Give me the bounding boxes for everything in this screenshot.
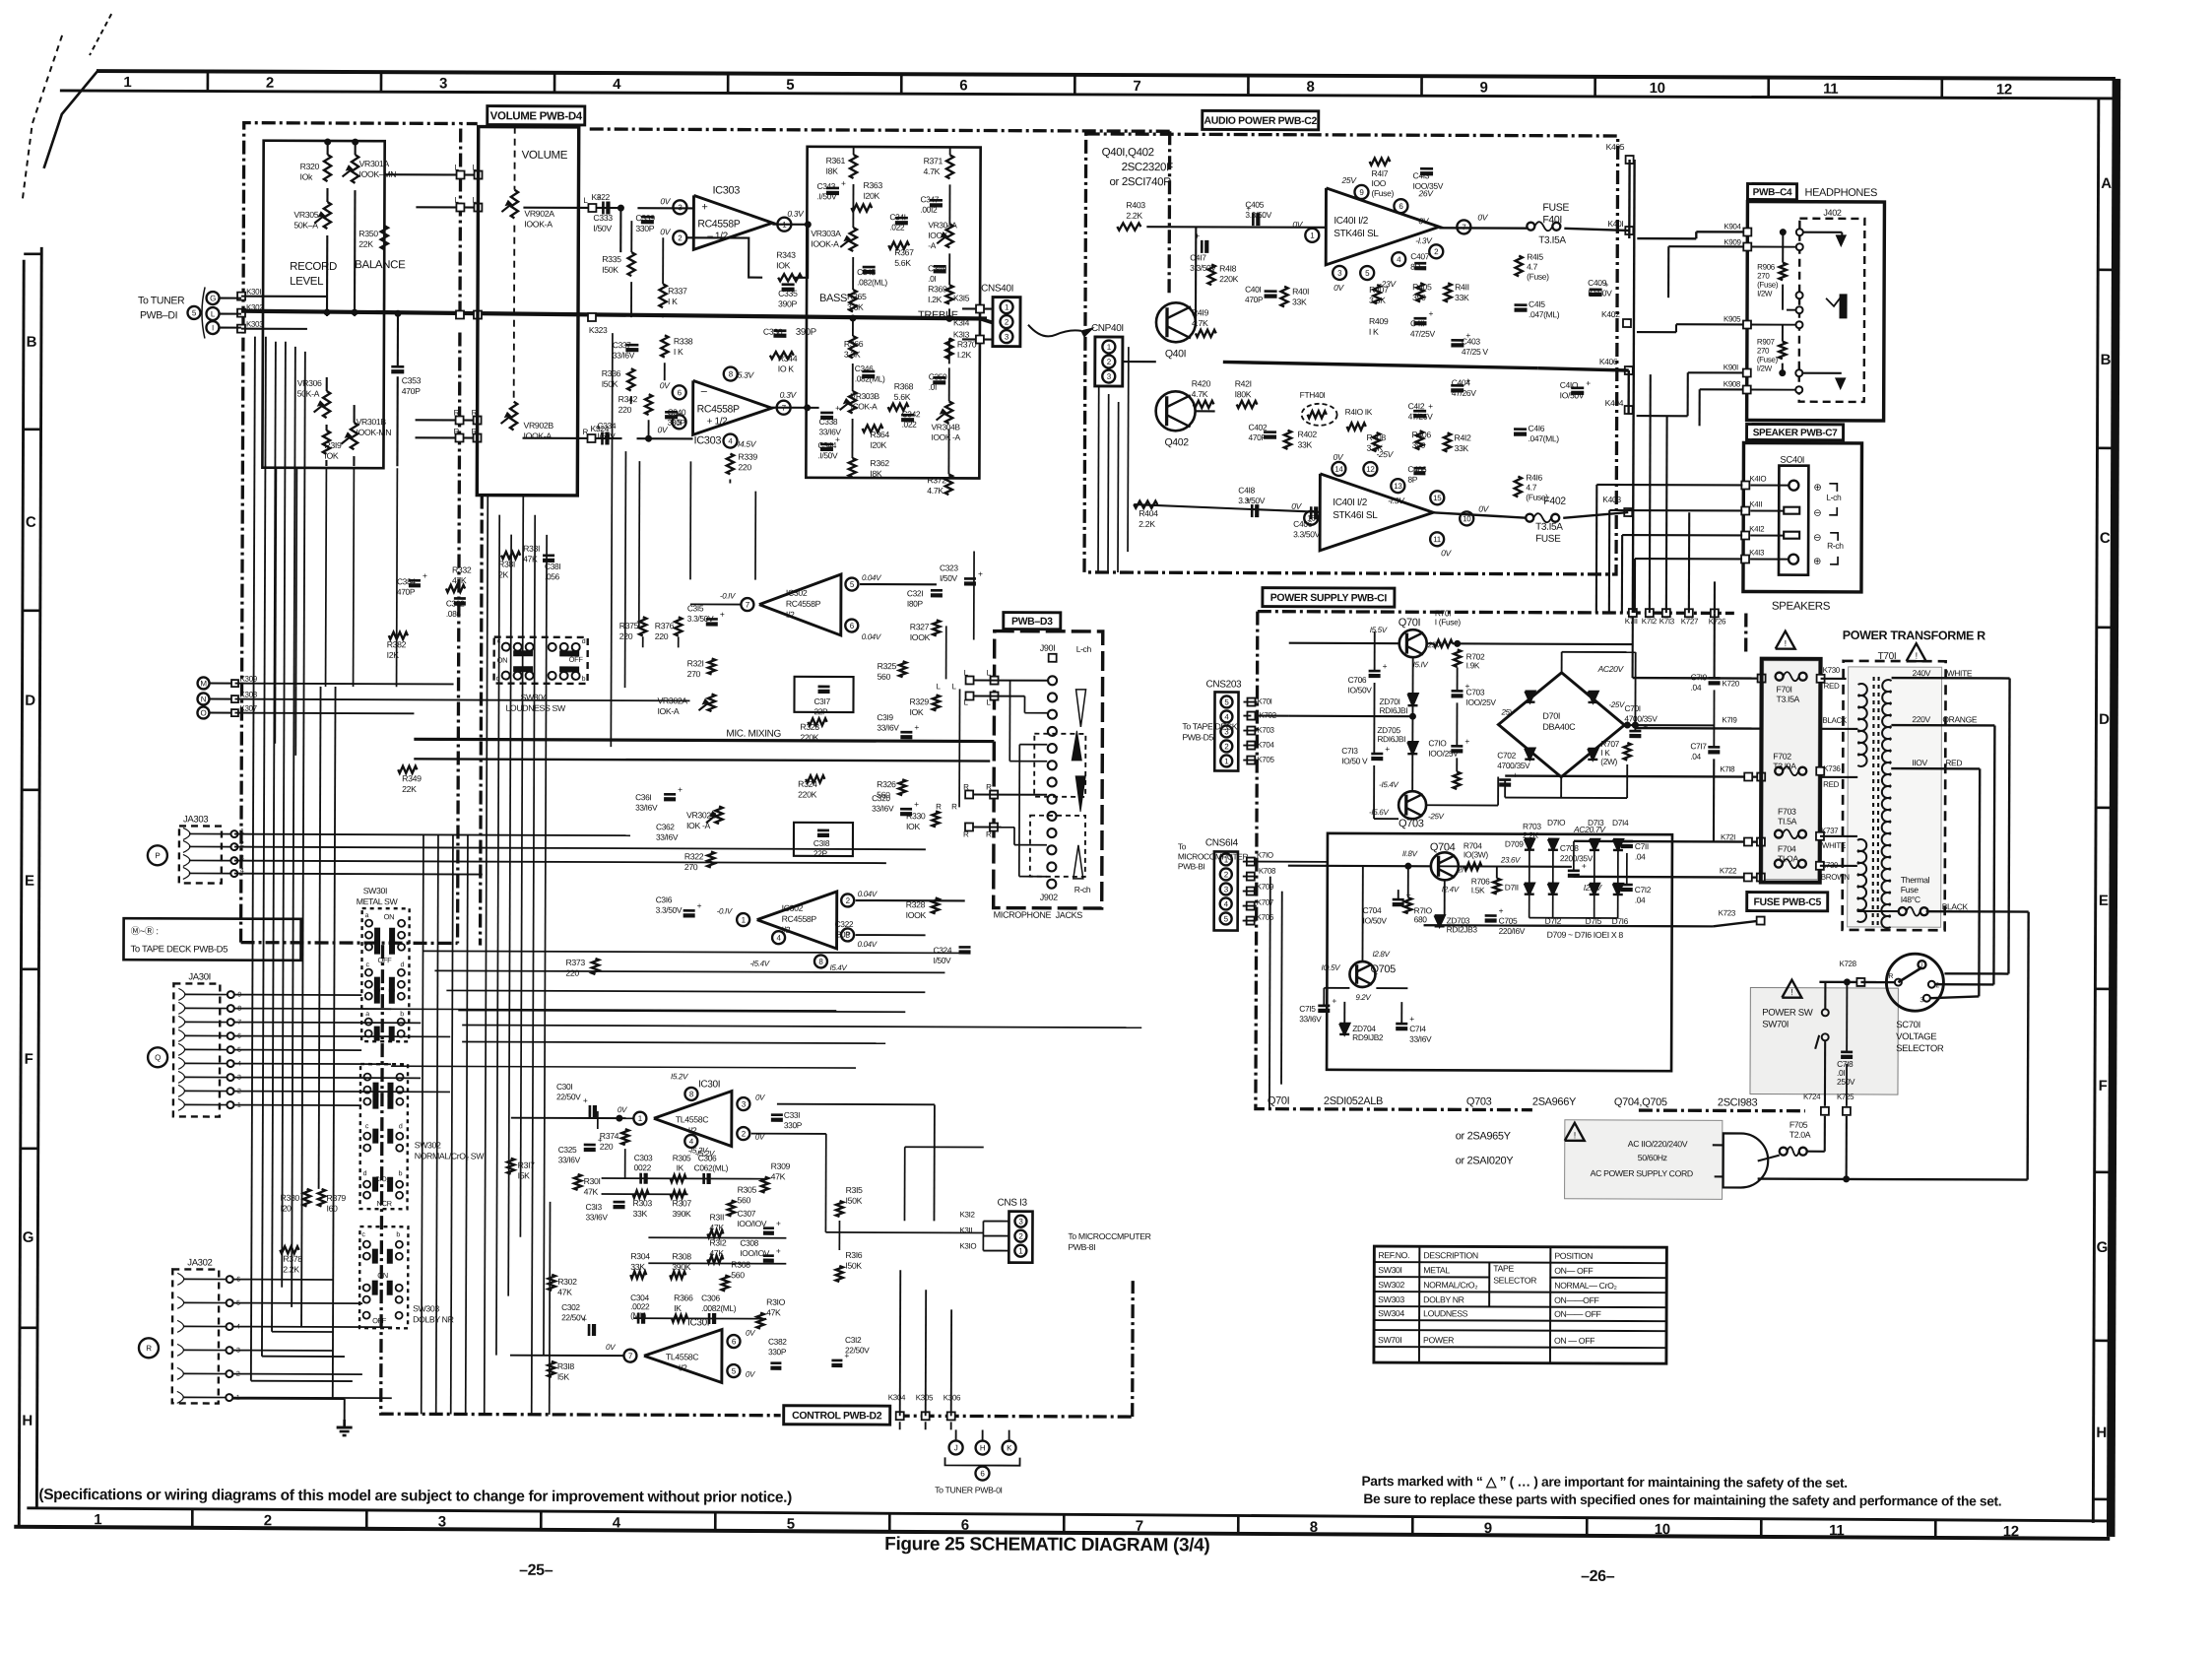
svg-text:6: 6 (732, 1337, 737, 1346)
svg-text:C703: C703 (1466, 687, 1485, 696)
label AUDIO POWER PWB-C2 (1203, 110, 1319, 129)
svg-text:8: 8 (729, 369, 734, 378)
svg-text:K406: K406 (1599, 357, 1618, 366)
svg-text:POSITION: POSITION (1554, 1251, 1593, 1261)
svg-text:L-ch: L-ch (1826, 493, 1842, 502)
capacitor C343 (826, 187, 839, 190)
svg-text:R361: R361 (826, 156, 846, 166)
svg-text:C325: C325 (558, 1145, 577, 1155)
svg-text:3: 3 (742, 1099, 747, 1108)
wires headphone jack (1796, 229, 1803, 235)
op-amp IC401 lower (1320, 474, 1433, 551)
svg-text:R4I2: R4I2 (1455, 432, 1472, 442)
svg-text:+: + (596, 192, 601, 202)
svg-text:-I5.4V: -I5.4V (1379, 780, 1399, 789)
svg-text:K725: K725 (1837, 1093, 1854, 1101)
svg-text:I/2W: I/2W (1757, 365, 1773, 373)
svg-text:F703: F703 (1778, 807, 1796, 817)
svg-text:H: H (22, 1413, 33, 1429)
svg-text:C3I3: C3I3 (586, 1202, 603, 1212)
svg-text:33/I6V: 33/I6V (558, 1155, 581, 1164)
svg-text:or 2SCI740R: or 2SCI740R (1109, 176, 1171, 188)
switch SW303 DOLBY NR (359, 1226, 408, 1328)
wires mixing (414, 739, 994, 741)
wires audio power (1123, 361, 1156, 363)
svg-text:K40I: K40I (1607, 219, 1623, 229)
svg-text:R4I9: R4I9 (1192, 307, 1209, 317)
svg-text:I5K: I5K (557, 1372, 570, 1382)
svg-text:2SC2320F: 2SC2320F (1122, 162, 1174, 173)
wire power supply to cns (1243, 701, 1257, 703)
label SPEAKER PWB-C7 (1747, 424, 1844, 439)
wires tone network (853, 147, 855, 155)
svg-text:K4I2: K4I2 (1749, 525, 1765, 534)
svg-text:0.04V: 0.04V (862, 573, 881, 582)
wire record box drops (275, 468, 278, 687)
svg-text:3: 3 (1107, 372, 1112, 381)
svg-text:+: + (776, 1246, 781, 1256)
svg-text:(Fuse): (Fuse) (1757, 281, 1779, 290)
svg-text:C322: C322 (835, 919, 854, 929)
svg-text:Q704: Q704 (1430, 841, 1456, 853)
svg-text:K72I: K72I (1721, 832, 1735, 841)
capacitor C344 (820, 443, 833, 446)
svg-text:K303: K303 (246, 320, 264, 329)
svg-text:I80P: I80P (907, 599, 924, 609)
svg-text:7: 7 (1133, 78, 1140, 95)
svg-text:0V: 0V (1441, 548, 1452, 558)
svg-text:(2W): (2W) (1600, 757, 1617, 766)
svg-text:.0I: .0I (929, 382, 937, 392)
transformer dashed box (1843, 661, 1946, 930)
wires transformer outputs (1891, 678, 1893, 681)
svg-text:330P: 330P (768, 1347, 787, 1357)
svg-text:ON: ON (377, 1271, 388, 1280)
svg-text:CNS6I4: CNS6I4 (1205, 837, 1239, 848)
svg-text:K: K (1007, 1443, 1012, 1452)
pot VR902B (510, 402, 517, 431)
svg-text:POWER SUPPLY PWB-CI: POWER SUPPLY PWB-CI (1270, 592, 1388, 604)
halftone wash transformer (1848, 667, 1942, 927)
svg-text:-25V: -25V (1428, 812, 1445, 821)
svg-text:0V: 0V (660, 380, 671, 390)
svg-text:R3IO: R3IO (766, 1297, 786, 1307)
svg-text:I (Fuse): I (Fuse) (1435, 617, 1462, 627)
wire K402 to K905 (1637, 331, 1676, 333)
svg-text:I5.IV: I5.IV (1413, 660, 1429, 669)
inner regulator box (1327, 833, 1672, 1071)
svg-text:II.8V: II.8V (1402, 849, 1418, 858)
svg-text:1: 1 (94, 1511, 101, 1528)
svg-text:(Fuse): (Fuse) (1527, 272, 1549, 282)
svg-text:1: 1 (1005, 302, 1009, 311)
svg-text:c: c (365, 1123, 369, 1130)
svg-text:C407: C407 (1410, 251, 1430, 261)
svg-text:R906: R906 (1757, 263, 1776, 272)
op-amp IC303 upper (693, 195, 772, 249)
capacitor C713 (1371, 753, 1383, 756)
svg-text:ORANGE: ORANGE (1942, 714, 1977, 724)
svg-text:JACKS: JACKS (1056, 910, 1083, 920)
svg-text:I.5K: I.5K (1471, 885, 1485, 895)
svg-text:1: 1 (1107, 343, 1112, 352)
svg-text:-0.IV: -0.IV (717, 906, 733, 915)
svg-text:470P: 470P (397, 587, 416, 597)
label CONTROL PWB-D2 (784, 1406, 890, 1425)
svg-text:E: E (2099, 893, 2109, 909)
svg-text:ON: ON (384, 912, 395, 921)
svg-text:R: R (146, 1344, 152, 1353)
svg-text:R320: R320 (300, 162, 320, 171)
svg-text:R330: R330 (906, 811, 926, 821)
svg-text:11: 11 (1829, 1522, 1844, 1539)
svg-text:2: 2 (678, 233, 683, 242)
svg-text:RC4558P: RC4558P (697, 218, 740, 230)
svg-text:K30I: K30I (246, 288, 261, 297)
svg-text:BALANCE: BALANCE (355, 259, 406, 271)
svg-text:I80P: I80P (835, 929, 852, 939)
svg-text:0.3V: 0.3V (787, 209, 805, 219)
svg-text:To TUNER: To TUNER (138, 295, 185, 306)
svg-text:K7I2: K7I2 (1642, 617, 1658, 626)
halftone wash fuse block (1763, 661, 1819, 880)
svg-text:9.2V: 9.2V (1355, 993, 1371, 1002)
svg-text:PWB-D5: PWB-D5 (1182, 732, 1213, 742)
svg-text:33/I6V: 33/I6V (613, 350, 635, 360)
connector R (139, 1338, 159, 1358)
svg-text:P: P (155, 851, 160, 860)
transformer secondary winding (1882, 680, 1891, 692)
svg-text:R378: R378 (283, 1254, 302, 1264)
wire JA301 fan (234, 994, 361, 996)
svg-text:⊕: ⊕ (1813, 483, 1821, 494)
svg-text:DBA40C: DBA40C (1542, 722, 1576, 732)
capacitor C331 (771, 1113, 783, 1116)
block POWER SUPPLY outline (1258, 612, 1734, 614)
svg-text:C40I: C40I (1245, 285, 1261, 295)
svg-text:K307: K307 (239, 704, 257, 713)
svg-text:VR902A: VR902A (524, 209, 554, 219)
svg-text:R369: R369 (928, 284, 947, 294)
svg-text:3: 3 (439, 75, 447, 92)
svg-text:WHITE: WHITE (1947, 668, 1973, 678)
svg-text:R-ch: R-ch (1074, 885, 1091, 895)
svg-text:T3.I5A: T3.I5A (1776, 695, 1799, 704)
capacitor C350 (933, 376, 945, 379)
svg-text:!: ! (1574, 1130, 1576, 1140)
svg-text:C336: C336 (763, 327, 783, 337)
svg-text:270: 270 (684, 862, 698, 872)
svg-text:C4I7: C4I7 (1190, 252, 1206, 262)
svg-text:6: 6 (678, 388, 683, 397)
svg-text:J402: J402 (1823, 208, 1841, 218)
svg-text:I20K: I20K (870, 440, 886, 450)
voltage selector SC701 (1886, 954, 1943, 1011)
svg-text:+: + (776, 1219, 781, 1228)
svg-text:–26–: –26– (1581, 1568, 1615, 1585)
svg-text:I20K: I20K (863, 191, 879, 201)
svg-text:PWB–DI: PWB–DI (140, 309, 177, 321)
svg-text:+: + (1245, 496, 1250, 505)
svg-text:C346: C346 (855, 364, 874, 373)
svg-text:A: A (2101, 175, 2112, 192)
svg-text:47/26V: 47/26V (1452, 388, 1477, 398)
svg-text:IO/50V: IO/50V (1560, 390, 1585, 400)
wire left vertical bundle (251, 337, 255, 1381)
svg-text:a: a (365, 1011, 369, 1018)
svg-text:K708: K708 (1259, 867, 1276, 876)
svg-text:FUSE PWB-C5: FUSE PWB-C5 (1753, 896, 1821, 908)
svg-text:R326: R326 (877, 779, 896, 789)
wire JA302 fan (233, 1279, 333, 1281)
wire bus CNS401 to CNP401 (1020, 308, 1075, 310)
svg-text:C307: C307 (737, 1209, 755, 1219)
svg-text:R344: R344 (778, 354, 798, 364)
svg-text:C362: C362 (656, 822, 675, 831)
wire audio out buses (1629, 159, 1631, 161)
svg-text:220K: 220K (1219, 274, 1238, 284)
svg-text:D70I: D70I (1542, 711, 1560, 721)
svg-text:FTH40I: FTH40I (1300, 390, 1326, 400)
svg-text:R3I8: R3I8 (557, 1361, 575, 1371)
svg-text:IC302: IC302 (782, 903, 804, 913)
svg-text:K70I: K70I (1257, 697, 1271, 706)
jack plug L (1799, 232, 1842, 233)
svg-text:0V: 0V (746, 1370, 755, 1379)
wire K723 rail (1424, 925, 1714, 926)
svg-text:Be sure to replace these parts: Be sure to replace these parts with spec… (1363, 1491, 2001, 1508)
op-amp IC401 upper (1326, 188, 1439, 265)
svg-text:R303: R303 (633, 1198, 653, 1208)
svg-text:I.2K: I.2K (928, 295, 943, 304)
svg-text:VR301B: VR301B (357, 417, 387, 427)
svg-text:I2.8V: I2.8V (1584, 883, 1603, 893)
svg-text:L: L (952, 682, 957, 691)
svg-text:OFF: OFF (377, 956, 392, 964)
svg-text:IO K: IO K (778, 364, 795, 373)
svg-text:L-ch: L-ch (1076, 644, 1092, 654)
capacitor C703 (1452, 690, 1464, 693)
svg-text:d: d (363, 1170, 367, 1177)
wires left block verticals (327, 142, 329, 155)
svg-text:1: 1 (742, 915, 747, 924)
svg-text:C342: C342 (902, 409, 921, 419)
svg-text:+: + (1332, 996, 1336, 1006)
svg-text:IOK: IOK (324, 451, 339, 461)
svg-text:R309: R309 (771, 1161, 791, 1171)
svg-text:+: + (583, 1095, 588, 1105)
svg-text:4: 4 (776, 934, 781, 943)
svg-text:8P: 8P (1407, 475, 1417, 485)
svg-text:C339: C339 (635, 213, 655, 223)
svg-text:I5K: I5K (518, 1170, 531, 1180)
svg-text:12: 12 (1996, 81, 2012, 98)
svg-text:33/I6V: 33/I6V (635, 803, 658, 813)
svg-text:2: 2 (1224, 870, 1229, 879)
svg-text:12: 12 (2003, 1523, 2019, 1540)
svg-text:IOO: IOO (1371, 178, 1386, 188)
svg-text:DOLBY NR: DOLBY NR (1423, 1294, 1464, 1304)
svg-text:!: ! (1916, 651, 1918, 661)
svg-text:9: 9 (1480, 79, 1488, 96)
svg-text:2200/35V: 2200/35V (1560, 853, 1594, 863)
svg-text:390P: 390P (778, 298, 797, 308)
svg-text:C402: C402 (1249, 423, 1268, 432)
svg-text:4: 4 (689, 1137, 694, 1146)
svg-text:-A: -A (928, 240, 936, 250)
svg-text:C3I2: C3I2 (845, 1335, 862, 1345)
halftone wash power switch area (1750, 988, 1898, 1095)
svg-text:.04: .04 (1635, 895, 1646, 904)
svg-text:C4I2: C4I2 (1408, 401, 1425, 411)
svg-text:J: J (954, 1443, 958, 1452)
wire 240V WHITE (1892, 677, 2010, 680)
capacitor C349 (934, 265, 946, 268)
wire L row (385, 173, 479, 175)
svg-text:IK: IK (674, 1303, 682, 1313)
svg-text:C344: C344 (817, 440, 836, 450)
wire volume R out (523, 437, 622, 439)
svg-text:+: + (914, 722, 919, 732)
wire tone to mixing verticals (611, 333, 613, 747)
svg-text:METAL: METAL (1423, 1265, 1450, 1275)
fuse F703 (1775, 830, 1783, 838)
svg-text:R: R (1888, 973, 1893, 980)
svg-text:(Fuse): (Fuse) (1371, 188, 1394, 198)
capacitor C346 (862, 370, 875, 373)
wire AC20.7 rail (1574, 840, 1761, 843)
svg-text:K306: K306 (943, 1393, 961, 1402)
svg-text:I.9K: I.9K (1466, 660, 1480, 670)
capacitor C710 (1451, 745, 1463, 748)
svg-text:STK46I SL: STK46I SL (1334, 229, 1379, 239)
svg-text:R342: R342 (618, 394, 638, 404)
svg-text:390K: 390K (672, 1209, 690, 1219)
svg-text:50/60Hz: 50/60Hz (1638, 1153, 1667, 1162)
capacitor C706 (1369, 670, 1381, 673)
svg-text:470P: 470P (1249, 432, 1268, 442)
block CONTROL boundary (381, 945, 783, 1416)
svg-text:33/I6V: 33/I6V (1299, 1014, 1322, 1024)
svg-text:I8K: I8K (826, 166, 839, 176)
svg-text:C33I: C33I (784, 1110, 800, 1120)
svg-text:C70I: C70I (1624, 703, 1640, 713)
svg-text:270: 270 (1757, 347, 1770, 356)
svg-text:K909: K909 (1724, 237, 1741, 246)
svg-text:D709: D709 (1505, 839, 1524, 849)
svg-text:C343: C343 (816, 181, 835, 191)
headphones box (1747, 201, 1885, 421)
svg-text:C4I5: C4I5 (1529, 299, 1545, 309)
svg-text:D7II: D7II (1505, 883, 1519, 893)
label POWER SUPPLY PWB-C1 (1263, 588, 1395, 608)
svg-text:K908: K908 (1724, 379, 1741, 388)
svg-text:Q703: Q703 (1466, 1095, 1492, 1107)
svg-text:H: H (2096, 1425, 2107, 1441)
svg-text:220: 220 (655, 631, 669, 641)
svg-text:R4I5: R4I5 (1527, 252, 1543, 262)
svg-text:4.7: 4.7 (1526, 483, 1536, 493)
svg-text:RDI6JBI: RDI6JBI (1377, 734, 1405, 744)
svg-text:4: 4 (1224, 712, 1229, 721)
svg-text:R373: R373 (565, 958, 585, 967)
box M-R tape deck (123, 918, 300, 961)
svg-text:RC4558P: RC4558P (782, 914, 817, 924)
svg-text:6: 6 (850, 622, 855, 630)
svg-text:C32I: C32I (907, 588, 923, 598)
svg-text:K722: K722 (1720, 866, 1737, 875)
svg-text:I48°C: I48°C (1901, 895, 1920, 904)
svg-text:LOUDNESS: LOUDNESS (1423, 1308, 1468, 1318)
svg-text:R403: R403 (1126, 200, 1145, 210)
svg-text:R376: R376 (655, 621, 675, 630)
svg-text:R: R (951, 802, 957, 811)
AC power cord gate symbol (1724, 1133, 1769, 1187)
svg-text:I8K: I8K (870, 469, 882, 479)
svg-text:C4IO: C4IO (1560, 380, 1579, 390)
svg-text:K726: K726 (1709, 617, 1726, 626)
svg-text:I60: I60 (326, 1204, 338, 1214)
svg-text:R349: R349 (402, 773, 422, 783)
svg-text:2: 2 (1224, 742, 1229, 751)
svg-text:10: 10 (1655, 1521, 1670, 1538)
svg-text:33/I6V: 33/I6V (877, 723, 899, 733)
capacitor C353 (391, 365, 404, 368)
svg-text:5: 5 (787, 1516, 795, 1533)
svg-text:J90I: J90I (1040, 643, 1056, 653)
svg-text:22/50V: 22/50V (556, 1092, 581, 1101)
svg-text:I K: I K (1369, 327, 1379, 337)
svg-text:IOOK-A: IOOK-A (524, 219, 553, 229)
svg-text:To TAPE DECK PWB-D5: To TAPE DECK PWB-D5 (131, 944, 228, 955)
svg-text:C337: C337 (613, 340, 631, 350)
svg-text:Parts marked with “ △ ” ( … ): Parts marked with “ △ ” ( … ) are import… (1361, 1474, 1847, 1491)
resistor R344 (770, 352, 794, 359)
svg-text:+: + (423, 570, 427, 580)
svg-text:RED: RED (1824, 682, 1840, 691)
svg-text:IC303: IC303 (693, 434, 721, 446)
svg-text:R: R (936, 802, 942, 811)
svg-text:K720: K720 (1723, 679, 1740, 688)
capacitor C335 (782, 283, 795, 286)
svg-text:5: 5 (1224, 697, 1229, 706)
svg-text:23.6V: 23.6V (1500, 856, 1521, 865)
svg-text:F705: F705 (1789, 1120, 1808, 1130)
svg-text:K703: K703 (1257, 726, 1274, 735)
svg-text:!: ! (1790, 987, 1792, 997)
svg-text:K730: K730 (1823, 666, 1841, 675)
svg-text:SPEAKERS: SPEAKERS (1772, 601, 1831, 613)
svg-text:C4II: C4II (1410, 318, 1424, 328)
svg-text:R370: R370 (957, 339, 977, 349)
svg-text:VR303A: VR303A (811, 229, 841, 238)
svg-text:K405: K405 (1606, 142, 1625, 152)
svg-text:R343: R343 (776, 250, 796, 260)
svg-text:2: 2 (846, 896, 851, 905)
svg-text:R-ch: R-ch (1827, 541, 1844, 551)
connector Q (148, 1047, 167, 1067)
svg-text:PWB–C4: PWB–C4 (1753, 187, 1792, 198)
svg-text:3: 3 (1337, 269, 1342, 278)
svg-text:K4I3: K4I3 (1749, 549, 1765, 558)
svg-text:STK46I SL: STK46I SL (1333, 510, 1378, 521)
svg-text:R305: R305 (738, 1185, 757, 1195)
svg-text:IO/50 V: IO/50 V (1341, 756, 1368, 765)
svg-text:0V: 0V (1418, 216, 1429, 226)
svg-text:R302: R302 (557, 1277, 577, 1287)
svg-text:I K: I K (668, 297, 678, 306)
svg-text:TI.5A: TI.5A (1778, 817, 1797, 827)
